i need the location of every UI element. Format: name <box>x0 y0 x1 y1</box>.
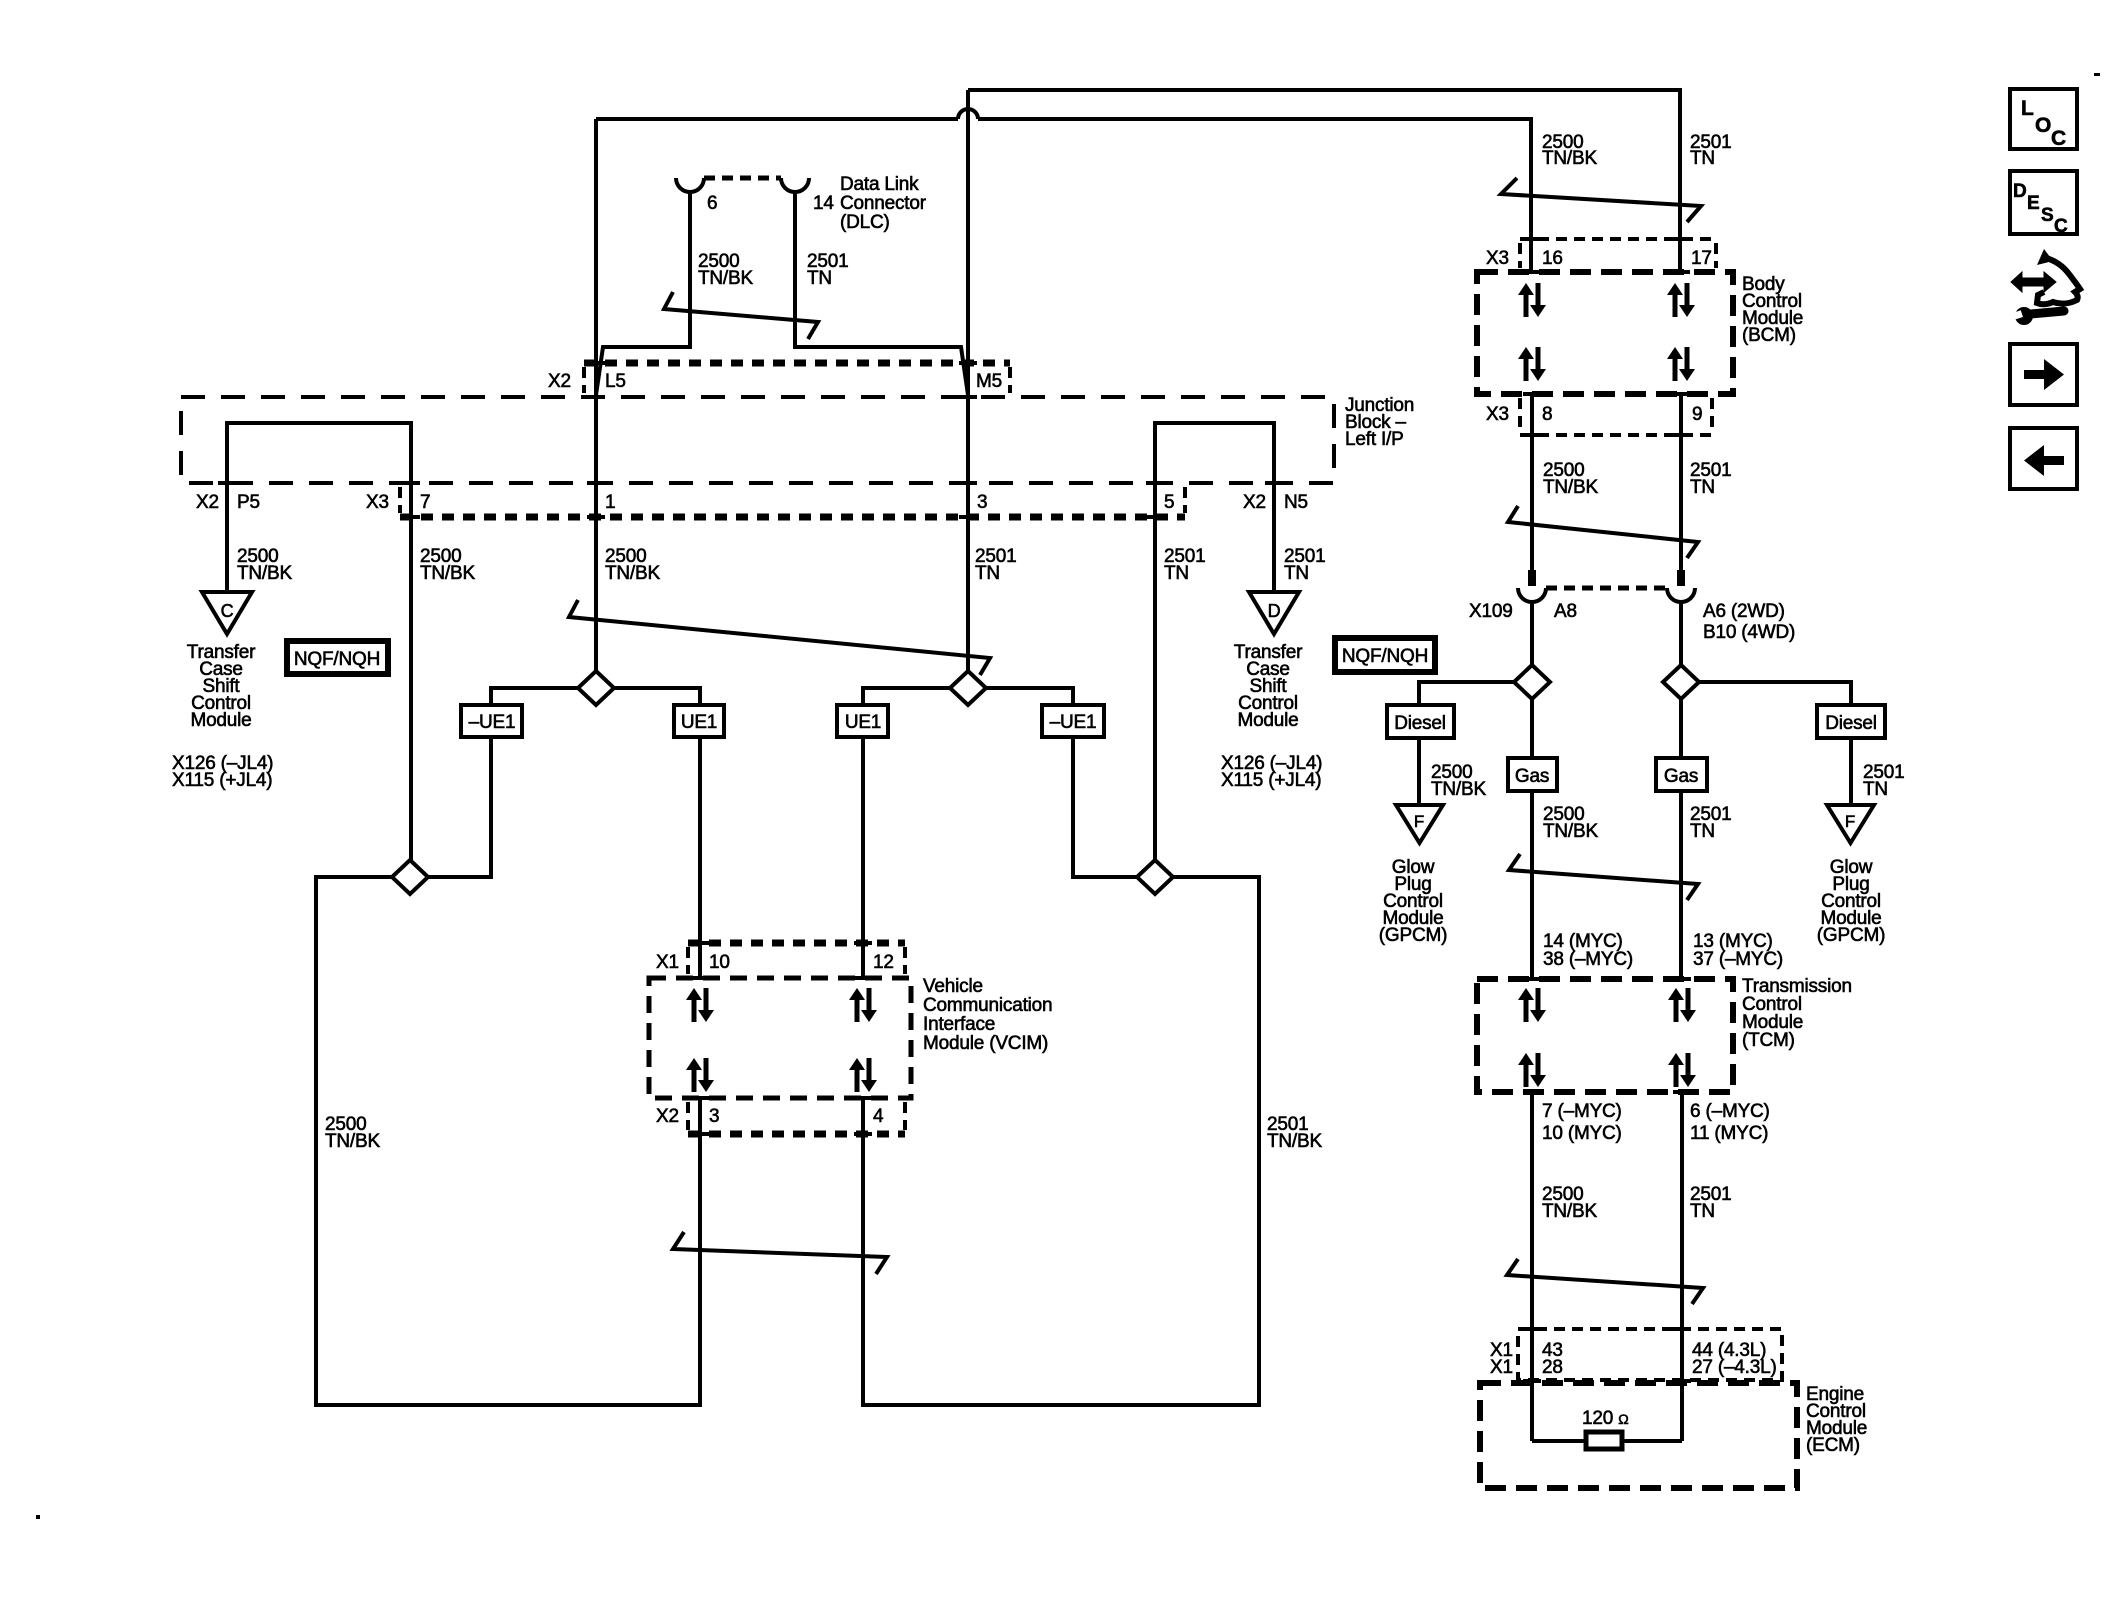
label 2501 TN above TCM <box>1690 804 1731 842</box>
connector X2 strip on junction block top <box>584 363 1010 393</box>
TCM bidirectional arrows left row2 <box>1518 1053 1546 1087</box>
wire 2500 TN/BK: BCM pin 16 to junction X2-L5, horizontal with hop <box>596 119 1531 272</box>
svg-text:Data Link: Data Link <box>840 174 919 195</box>
pin 4 label <box>873 1106 884 1127</box>
svg-text:X3: X3 <box>1486 404 1509 425</box>
twisted-pair crossover at BCM top wires <box>1501 178 1701 222</box>
connector X3 strip above BCM (pins 16,17) <box>1520 239 1716 268</box>
svg-text:X2: X2 <box>196 492 219 513</box>
splice diamond on 2500 at X109 <box>1514 665 1550 699</box>
svg-text:X3: X3 <box>1486 248 1509 269</box>
ticks at TCM edges <box>1523 979 1691 1092</box>
svg-text:14: 14 <box>813 193 834 214</box>
label 2501 TN at DLC pin 14 <box>807 251 848 289</box>
label 2500 TN/BK at 1 <box>605 546 660 584</box>
option box NQF/NQH (left) <box>287 641 388 674</box>
resistor 120 ohm <box>1586 1432 1622 1449</box>
label 2501 TN at 5 <box>1164 546 1205 584</box>
wire -UE1 right to splice diamond on wire 5 <box>1073 737 1137 877</box>
svg-text:(GPCM): (GPCM) <box>1379 925 1447 946</box>
svg-text:TN/BK: TN/BK <box>1431 779 1486 800</box>
svg-text:P5: P5 <box>237 492 260 513</box>
junction internal wire P5 to 7 <box>227 423 411 483</box>
module BCM dashed box <box>1477 272 1733 394</box>
twisted-pair crossover wires 1 and 3 <box>569 600 990 675</box>
pin 13 (MYC) / 37 (-MYC) labels <box>1693 931 1783 970</box>
svg-text:16: 16 <box>1542 248 1563 269</box>
twisted-pair crossover above TCM <box>1509 854 1698 900</box>
label 2500 TN/BK at 7 <box>420 546 475 584</box>
nav icon next (right arrow) <box>2010 344 2077 405</box>
svg-text:Interface: Interface <box>923 1014 995 1035</box>
pin 6 (-MYC) / 11 (MYC) labels <box>1690 1101 1770 1144</box>
svg-text:38 (–MYC): 38 (–MYC) <box>1543 949 1633 970</box>
wire Diesel to F triangle (left) 2500 TN/BK <box>1417 738 1421 805</box>
option box Gas (left) <box>1508 758 1557 791</box>
option box Gas (right) <box>1656 758 1707 791</box>
connector X109 cup A8 <box>1518 588 1546 602</box>
wire 2501 TN: BCM pin 17 to DLC branch, top horizontal <box>968 90 1680 272</box>
svg-text:28: 28 <box>1542 1357 1563 1378</box>
wire TCM pin6/11 to ECM 2501 TN <box>1680 1092 1684 1441</box>
TCM bidirectional arrows right row1 <box>1668 988 1696 1022</box>
wire splice down to Gas (right) <box>1679 698 1683 758</box>
wire left rail: splice to VCIM X2 pin 3 <box>316 877 700 1405</box>
svg-text:Communication: Communication <box>923 995 1052 1016</box>
svg-text:TN: TN <box>807 268 832 289</box>
module TCM dashed box <box>1477 979 1733 1092</box>
pin B10 (4WD) label <box>1703 622 1795 643</box>
label 2501 TN at 3 <box>975 546 1016 584</box>
connector DLC dashed link <box>704 176 781 181</box>
label X3 (BCM bottom) <box>1486 404 1509 425</box>
pin 43 / 28 labels <box>1542 1340 1563 1378</box>
pin number 14 (DLC) <box>813 193 834 214</box>
nav icon back (left arrow) <box>2010 428 2077 489</box>
wire 2500 TN/BK from BCM pin 8 <box>1530 394 1534 570</box>
label X1 (VCIM) <box>656 952 679 973</box>
svg-text:3: 3 <box>709 1106 719 1127</box>
VCIM bidirectional arrows pin10 row2 <box>686 1058 714 1092</box>
svg-text:(DLC): (DLC) <box>840 212 890 233</box>
wire -UE1 left to splice diamond on wire 7 <box>428 737 491 877</box>
svg-text:X2: X2 <box>656 1106 679 1127</box>
wire X109 A8 to splice <box>1530 601 1534 666</box>
label Glow Plug Control Module (GPCM) left <box>1379 857 1447 946</box>
svg-text:S: S <box>2041 205 2054 226</box>
svg-text:12: 12 <box>873 952 894 973</box>
svg-text:Module: Module <box>190 710 251 731</box>
svg-text:X2: X2 <box>1243 492 1266 513</box>
svg-text:L: L <box>2021 97 2034 120</box>
wire X109 A6 to splice <box>1679 601 1683 666</box>
label 2501 TN at right Diesel drop <box>1863 762 1904 800</box>
svg-text:N5: N5 <box>1284 492 1308 513</box>
nav icon LOC <box>2010 89 2077 150</box>
BCM bidirectional arrows pin17 row2 <box>1667 347 1695 381</box>
svg-text:NQF/NQH: NQF/NQH <box>1342 646 1428 667</box>
label 2500 TN/BK at P5 <box>237 546 292 584</box>
label Body Control Module (BCM) <box>1742 274 1803 346</box>
svg-text:TN: TN <box>1690 477 1715 498</box>
svg-text:TN: TN <box>1164 563 1189 584</box>
svg-text:UE1: UE1 <box>845 712 881 733</box>
label X109 <box>1469 601 1513 622</box>
svg-text:A8: A8 <box>1554 601 1577 622</box>
splice diamond on wire 3 <box>950 671 986 705</box>
wire Diesel to F triangle (right) 2501 TN <box>1849 738 1853 805</box>
svg-text:6: 6 <box>707 193 717 214</box>
svg-text:X115 (+JL4): X115 (+JL4) <box>1221 770 1321 791</box>
svg-text:(GPCM): (GPCM) <box>1817 925 1885 946</box>
twisted-pair crossover at DLC wires <box>664 292 818 339</box>
wire splice to Diesel (left) <box>1419 682 1514 705</box>
svg-text:11 (MYC): 11 (MYC) <box>1690 1123 1768 1144</box>
svg-text:TN/BK: TN/BK <box>698 268 753 289</box>
svg-text:TN/BK: TN/BK <box>1542 1201 1597 1222</box>
wire terminating rail inside ECM <box>1532 1439 1682 1443</box>
option box Diesel (right) <box>1817 705 1885 738</box>
label 2500 TN/BK below BCM pin 8 <box>1543 460 1598 498</box>
label X1 X1 (ECM) <box>1490 1340 1513 1378</box>
svg-text:D: D <box>2013 181 2027 202</box>
svg-text:A6 (2WD): A6 (2WD) <box>1703 601 1785 622</box>
svg-text:X109: X109 <box>1469 601 1513 622</box>
svg-text:UE1: UE1 <box>681 712 717 733</box>
wire splice2 left arm to UE1 <box>863 688 950 705</box>
label Transmission Control Module (TCM) <box>1742 976 1852 1051</box>
connector X109 pin A8 terminal <box>1528 570 1536 586</box>
label X126/X115 (right) <box>1221 753 1322 791</box>
svg-text:X1: X1 <box>656 952 679 973</box>
wire UE1 right down to VCIM X1 pin 12 <box>861 737 865 978</box>
TCM bidirectional arrows right row2 <box>1668 1053 1696 1087</box>
label 2500 TN/BK (left rail) <box>325 1114 380 1152</box>
svg-text:TN: TN <box>1284 563 1309 584</box>
wire 2501 TN junction X2-N5 to D triangle <box>1272 483 1276 592</box>
wire splice to Diesel (right) <box>1699 682 1851 705</box>
svg-text:6 (–MYC): 6 (–MYC) <box>1690 1101 1770 1122</box>
module ECM dashed box <box>1480 1383 1797 1488</box>
option box UE1 (left) <box>674 705 724 737</box>
label X126/X115 (left) <box>172 753 273 791</box>
ticks at VCIM crossings <box>691 943 872 1134</box>
ticks at junction block crossings <box>218 363 1283 517</box>
VCIM bidirectional arrows pin12 row1 <box>849 988 877 1022</box>
off-page triangle C (Transfer Case Shift Control Module) <box>202 592 252 634</box>
connector X109 dashed link <box>1546 586 1667 591</box>
svg-text:X1: X1 <box>1490 1357 1513 1378</box>
splice diamond on wire 7 <box>392 860 428 894</box>
svg-text:Left I/P: Left I/P <box>1345 429 1404 450</box>
splice diamond on 2501 at X109 <box>1663 665 1699 699</box>
svg-text:120 Ω: 120 Ω <box>1582 1408 1628 1429</box>
pin 7 (-MYC) / 10 (MYC) labels <box>1542 1101 1622 1144</box>
svg-text:(BCM): (BCM) <box>1742 325 1796 346</box>
svg-text:TN/BK: TN/BK <box>1542 148 1597 169</box>
svg-text:–UE1: –UE1 <box>1050 712 1097 733</box>
VCIM bidirectional arrows pin12 row2 <box>849 1058 877 1092</box>
svg-text:Gas: Gas <box>1664 766 1698 787</box>
BCM bidirectional arrows pin16 row1 <box>1518 283 1546 317</box>
label Glow Plug Control Module (GPCM) right <box>1817 857 1885 946</box>
svg-text:7 (–MYC): 7 (–MYC) <box>1542 1101 1622 1122</box>
svg-text:Gas: Gas <box>1515 766 1549 787</box>
svg-text:TN: TN <box>1863 779 1888 800</box>
label X3 (BCM top) <box>1486 248 1509 269</box>
svg-text:B10 (4WD): B10 (4WD) <box>1703 622 1795 643</box>
svg-text:TN: TN <box>975 563 1000 584</box>
label Transfer Case Shift Control Module (left) <box>187 642 256 731</box>
label 2500 TN/BK above ECM <box>1542 1184 1597 1222</box>
option box -UE1 (far left) <box>461 705 522 737</box>
ticks at ECM connector <box>1523 1329 1691 1381</box>
label 2500 TN/BK above TCM <box>1543 804 1598 842</box>
svg-text:7: 7 <box>420 492 430 513</box>
splice diamond on wire 5 <box>1137 860 1173 894</box>
twisted-pair crossover above ECM <box>1507 1259 1703 1304</box>
svg-text:TN/BK: TN/BK <box>420 563 475 584</box>
svg-text:O: O <box>2035 114 2051 137</box>
connector X3 strip below BCM (pins 8,9) <box>1520 398 1712 435</box>
svg-text:D: D <box>1268 601 1281 621</box>
svg-text:TN/BK: TN/BK <box>605 563 660 584</box>
svg-text:(ECM): (ECM) <box>1806 1435 1860 1456</box>
wire hop over 2501 at x=968 <box>958 109 978 119</box>
svg-text:37 (–MYC): 37 (–MYC) <box>1693 949 1783 970</box>
svg-text:L5: L5 <box>605 371 626 392</box>
svg-text:TN/BK: TN/BK <box>237 563 292 584</box>
junction bottom row labels X2 P5 / X3 7 / 1 / 3 / 5 / X2 N5 <box>196 492 219 513</box>
pin 3 label <box>709 1106 719 1127</box>
connector X1 strip on ECM <box>1518 1329 1782 1380</box>
pin 9 label <box>1692 404 1702 425</box>
wire 2501 TN: vertical drop to junction block X2-M5 (node M5) <box>966 90 970 671</box>
junction internal wire 5 to N5 <box>1155 423 1274 483</box>
splice diamond on wire 1 <box>578 671 614 705</box>
svg-text:Module (VCIM): Module (VCIM) <box>923 1033 1048 1054</box>
label 2500 TN/BK at DLC pin 6 <box>698 251 753 289</box>
wire VCIM X2 pin 4 stub <box>861 1098 865 1134</box>
connector X1 strip on VCIM top <box>688 943 905 974</box>
label Data Link Connector (DLC) <box>840 174 927 233</box>
BCM bidirectional arrows pin17 row1 <box>1667 283 1695 317</box>
svg-text:X3: X3 <box>366 492 389 513</box>
pin 12 label <box>873 952 894 973</box>
junction block dashed box <box>181 397 1334 483</box>
svg-text:C: C <box>2054 216 2068 237</box>
svg-text:X2: X2 <box>548 371 571 392</box>
pin 17 label <box>1691 248 1712 269</box>
wire 2501 TN junction 5 down <box>1153 483 1157 860</box>
svg-text:27 (–4.3L): 27 (–4.3L) <box>1692 1357 1777 1378</box>
wire Gas to TCM (right) <box>1679 791 1683 979</box>
svg-text:Connector: Connector <box>840 193 927 214</box>
connector DLC pin 14 wire 2501 TN <box>795 192 968 395</box>
svg-text:TN: TN <box>1690 821 1715 842</box>
ticks at BCM connector crossings <box>1523 239 1690 435</box>
svg-text:Diesel: Diesel <box>1825 713 1877 734</box>
off-page triangle F (right GPCM) <box>1827 805 1874 843</box>
svg-text:9: 9 <box>1692 404 1702 425</box>
wire VCIM X2 pin 3 stub <box>698 1098 702 1134</box>
pin 44 (4.3L) / 27 (-4.3L) labels <box>1692 1340 1777 1378</box>
svg-text:F: F <box>1845 812 1855 831</box>
connector DLC cup pin 14 <box>781 178 809 192</box>
wire splice1 right arm to UE1 <box>614 688 700 705</box>
svg-text:1: 1 <box>605 492 615 513</box>
module VCIM dashed box <box>649 978 911 1098</box>
wire 2500 TN/BK junction X2-P5 to C triangle <box>225 483 229 592</box>
pin number 6 (DLC) <box>707 193 717 214</box>
pin M5 label <box>976 371 1002 392</box>
pin A6 (2WD) label <box>1703 601 1785 622</box>
stray scan mark bottom left <box>36 1515 40 1519</box>
svg-text:E: E <box>2027 193 2040 214</box>
label 2500 TN/BK at left Diesel drop <box>1431 762 1486 800</box>
twisted-pair crossover above X109 <box>1508 506 1698 558</box>
wire 2501 TN from BCM pin 9 <box>1679 394 1683 570</box>
pin 14 (MYC) / 38 (-MYC) labels <box>1543 931 1633 970</box>
svg-text:M5: M5 <box>976 371 1002 392</box>
svg-text:F: F <box>1414 812 1424 831</box>
pin L5 label <box>605 371 626 392</box>
pin A8 label <box>1554 601 1577 622</box>
connector DLC pin 6 wire 2500 TN/BK <box>596 192 690 395</box>
label Vehicle Communication Interface Module (VCIM) <box>923 976 1052 1054</box>
BCM bidirectional arrows pin16 row2 <box>1518 347 1546 381</box>
svg-text:3: 3 <box>977 492 987 513</box>
label 2501 TN at N5 <box>1284 546 1325 584</box>
label Transfer Case Shift Control Module (right) <box>1234 642 1303 731</box>
label 2501 TN/BK (right rail) <box>1267 1114 1322 1152</box>
svg-text:X115 (+JL4): X115 (+JL4) <box>172 770 272 791</box>
svg-text:(TCM): (TCM) <box>1742 1030 1795 1051</box>
wire 2500 TN/BK junction X3-7 down <box>409 483 413 860</box>
label 2501 TN at BCM pin 17 <box>1690 132 1731 169</box>
wire TCM pin7/10 to ECM 2500 TN/BK <box>1530 1092 1534 1441</box>
wire Gas to TCM (left) <box>1530 791 1534 979</box>
nav icon harness routing (double arrow, outline, wrench) <box>2009 249 2080 325</box>
option box UE1 (right) <box>837 705 888 737</box>
pin 16 label <box>1542 248 1563 269</box>
TCM bidirectional arrows left row1 <box>1518 988 1546 1022</box>
connector X109 cup A6/B10 <box>1667 588 1695 602</box>
option box -UE1 (far right) <box>1042 705 1104 737</box>
connector X2 strip on VCIM bottom <box>688 1102 905 1134</box>
svg-text:8: 8 <box>1542 404 1552 425</box>
connector X3 strip on junction block bottom <box>400 487 1185 517</box>
svg-text:TN/BK: TN/BK <box>325 1131 380 1152</box>
wire splice2 right arm to -UE1 <box>986 688 1073 705</box>
label X2 (VCIM) <box>656 1106 679 1127</box>
svg-text:10: 10 <box>709 952 730 973</box>
pin 8 label <box>1542 404 1552 425</box>
svg-text:NQF/NQH: NQF/NQH <box>294 649 380 670</box>
svg-text:–UE1: –UE1 <box>469 712 516 733</box>
wire splice1 left arm to -UE1 <box>491 688 578 705</box>
svg-text:TN: TN <box>1690 148 1715 169</box>
wire UE1 left down to VCIM X1 pin 10 <box>698 737 702 978</box>
svg-text:Vehicle: Vehicle <box>923 976 983 997</box>
svg-text:C: C <box>2051 127 2066 150</box>
label 2501 TN above ECM <box>1690 1184 1731 1222</box>
wire splice down to Gas (left) <box>1530 698 1534 758</box>
svg-text:Module: Module <box>1237 710 1298 731</box>
off-page triangle F (left GPCM) <box>1396 805 1443 843</box>
svg-text:TN/BK: TN/BK <box>1267 1131 1322 1152</box>
label X2 (junction top) <box>548 371 571 392</box>
twisted-pair crossover below VCIM <box>673 1232 887 1274</box>
option box NQF/NQH (right) <box>1335 638 1435 672</box>
svg-text:TN: TN <box>1690 1201 1715 1222</box>
svg-text:17: 17 <box>1691 248 1712 269</box>
label Engine Control Module (ECM) <box>1806 1384 1867 1456</box>
wire right rail: splice to VCIM X2 pin 4 <box>863 877 1259 1405</box>
svg-text:4: 4 <box>873 1106 884 1127</box>
svg-text:5: 5 <box>1164 492 1174 513</box>
svg-text:Diesel: Diesel <box>1394 713 1446 734</box>
stray scan mark top right <box>2094 73 2100 76</box>
label 2501 TN below BCM pin 9 <box>1690 460 1731 498</box>
pin 10 label <box>709 952 730 973</box>
svg-text:TN/BK: TN/BK <box>1543 821 1598 842</box>
connector X109 pin A6/B10 terminal <box>1677 570 1685 586</box>
off-page triangle D (Transfer Case Shift Control Module) <box>1249 592 1299 634</box>
svg-text:C: C <box>221 601 234 621</box>
svg-text:TN/BK: TN/BK <box>1543 477 1598 498</box>
label 120 ohm <box>1582 1408 1628 1429</box>
option box Diesel (left) <box>1387 705 1454 738</box>
label Junction Block - Left I/P <box>1345 395 1414 450</box>
label 2500 TN/BK at BCM pin 16 <box>1542 132 1597 169</box>
nav icon DESC <box>2010 171 2077 237</box>
svg-text:10 (MYC): 10 (MYC) <box>1542 1123 1622 1144</box>
VCIM bidirectional arrows pin10 row1 <box>686 988 714 1022</box>
connector DLC cup pin 6 <box>676 178 704 192</box>
wire 2500 TN/BK: vertical drop junction X2-L5 (node L5) <box>594 119 598 671</box>
